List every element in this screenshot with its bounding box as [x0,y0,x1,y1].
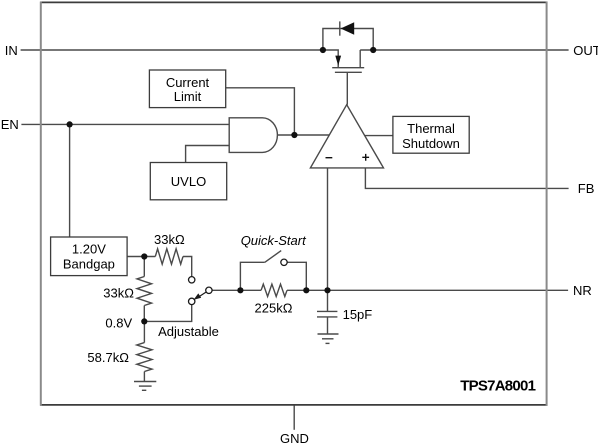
svg-text:1.20V: 1.20V [72,242,106,257]
svg-text:Quick-Start: Quick-Start [241,233,307,248]
svg-text:FB: FB [578,181,595,196]
svg-text:Bandgap: Bandgap [63,257,115,272]
svg-text:225kΩ: 225kΩ [255,300,293,315]
svg-text:15pF: 15pF [343,307,373,322]
svg-text:Current: Current [166,75,210,90]
svg-text:0.8V: 0.8V [105,316,132,331]
svg-text:TPS7A8001: TPS7A8001 [460,378,535,395]
svg-text:33kΩ: 33kΩ [103,286,134,301]
svg-text:IN: IN [5,43,18,58]
svg-text:Thermal: Thermal [407,121,455,136]
svg-text:GND: GND [280,431,309,443]
svg-text:Limit: Limit [174,89,202,104]
svg-text:NR: NR [573,283,592,298]
svg-text:Adjustable: Adjustable [158,324,219,339]
svg-text:EN: EN [1,117,19,132]
svg-text:UVLO: UVLO [171,174,206,189]
svg-text:58.7kΩ: 58.7kΩ [87,350,129,365]
svg-text:OUT: OUT [573,43,598,58]
svg-text:Shutdown: Shutdown [402,136,460,151]
svg-text:33kΩ: 33kΩ [154,232,185,247]
